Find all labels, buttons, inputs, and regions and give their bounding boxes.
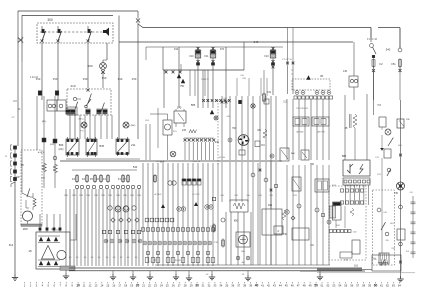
svg-text:F10: F10 [174, 48, 179, 51]
svg-text:F7b: F7b [220, 48, 225, 51]
svg-text:45: 45 [320, 74, 324, 78]
svg-text:C/H: C/H [234, 195, 238, 197]
svg-text:59: 59 [368, 284, 371, 288]
svg-text:57: 57 [356, 284, 359, 288]
svg-text:25: 25 [166, 284, 169, 288]
svg-text:28: 28 [184, 284, 187, 288]
svg-text:17: 17 [118, 284, 121, 288]
svg-text:211: 211 [131, 143, 136, 147]
svg-text:210: 210 [70, 84, 75, 88]
svg-text:51: 51 [321, 284, 324, 288]
svg-text:P10: P10 [53, 77, 58, 81]
svg-text:A10 A10 P10: A10 A10 P10 [346, 184, 359, 187]
svg-text:33: 33 [213, 284, 216, 288]
svg-text:180: 180 [22, 227, 27, 231]
svg-text:A C A D: A C A D [155, 193, 162, 196]
svg-text:P/B: P/B [137, 195, 141, 197]
svg-text:54: 54 [338, 284, 341, 288]
svg-text:29: 29 [190, 284, 193, 288]
svg-text:P10: P10 [102, 76, 107, 80]
svg-text:24: 24 [160, 284, 163, 288]
svg-text:15: 15 [28, 249, 32, 253]
svg-text:(MC): (MC) [79, 119, 84, 121]
svg-text:60: 60 [374, 284, 378, 288]
svg-text:N S: N S [173, 131, 177, 133]
svg-text:F51: F51 [391, 63, 396, 66]
svg-text:52: 52 [326, 284, 329, 288]
svg-text:CP: CP [11, 117, 15, 119]
svg-text:(MB): (MB) [50, 144, 55, 146]
svg-text:(CP): (CP) [41, 178, 45, 180]
svg-text:12: 12 [88, 284, 91, 288]
svg-text:20: 20 [136, 284, 140, 288]
svg-text:540: 540 [254, 40, 259, 44]
svg-text:35: 35 [225, 284, 228, 288]
svg-text:10: 10 [76, 284, 80, 288]
svg-text:32: 32 [207, 284, 210, 288]
svg-text:C/H: C/H [240, 75, 244, 77]
svg-text:47: 47 [297, 284, 300, 288]
svg-text:740: 740 [283, 233, 288, 236]
svg-text:41 C/H: 41 C/H [219, 157, 226, 159]
svg-text:43: 43 [273, 284, 276, 288]
svg-text:F11: F11 [205, 55, 210, 58]
svg-text:145: 145 [343, 70, 348, 73]
svg-text:14: 14 [100, 284, 103, 288]
svg-text:44: 44 [279, 284, 282, 288]
svg-text:A/D P/B: A/D P/B [317, 131, 325, 134]
svg-text:585: 585 [191, 103, 196, 107]
svg-text:16: 16 [112, 284, 115, 288]
svg-text:P10: P10 [83, 77, 88, 81]
svg-text:F 14 F 16: F 14 F 16 [367, 39, 378, 41]
svg-text:B35: B35 [100, 144, 105, 148]
svg-text:A C P D: A C P D [192, 193, 200, 196]
svg-text:41: 41 [261, 284, 264, 288]
svg-text:P/B: P/B [86, 195, 90, 197]
svg-text:40: 40 [255, 284, 259, 288]
svg-text:62: 62 [386, 284, 389, 288]
svg-text:63: 63 [392, 284, 395, 288]
svg-text:750: 750 [180, 85, 185, 88]
svg-text:P 14 P 16: P 14 P 16 [282, 59, 292, 61]
svg-text:C/H: C/H [258, 195, 262, 197]
svg-text:48: 48 [303, 284, 306, 288]
svg-text:P/B: P/B [130, 195, 134, 197]
svg-text:61: 61 [380, 284, 383, 288]
svg-text:19: 19 [130, 284, 133, 288]
svg-text:55: 55 [344, 284, 347, 288]
svg-text:C/H: C/H [223, 98, 227, 100]
svg-text:34: 34 [219, 284, 222, 288]
svg-text:196: 196 [268, 204, 273, 207]
svg-text:P10: P10 [118, 77, 123, 81]
svg-text:58: 58 [362, 284, 365, 288]
svg-text:F10: F10 [189, 55, 194, 58]
svg-text:P/B: P/B [72, 195, 76, 197]
svg-text:P10 P10: P10 P10 [192, 161, 201, 163]
svg-text:21: 21 [142, 284, 145, 288]
svg-text:18: 18 [124, 284, 127, 288]
svg-text:P/B: P/B [123, 195, 127, 197]
svg-text:39: 39 [249, 284, 252, 288]
svg-text:C/H: C/H [226, 116, 230, 118]
svg-text:540: 540 [133, 165, 138, 169]
svg-text:500: 500 [87, 64, 92, 68]
svg-text:P/B: P/B [94, 195, 98, 197]
svg-text:170: 170 [177, 106, 182, 110]
svg-text:42: 42 [267, 284, 270, 288]
svg-text:53: 53 [332, 284, 335, 288]
svg-text:700: 700 [232, 127, 237, 130]
svg-text:(AK): (AK) [59, 148, 64, 151]
svg-text:11: 11 [83, 284, 86, 288]
svg-text:C/H: C/H [246, 195, 250, 197]
svg-text:(ME): (ME) [131, 125, 136, 127]
svg-text:49: 49 [309, 284, 312, 288]
svg-text:300: 300 [47, 18, 53, 22]
svg-text:4 2A 1D: 4 2A 1D [30, 76, 39, 79]
svg-text:540: 540 [386, 48, 391, 52]
svg-text:K: K [278, 229, 280, 233]
svg-text:50: 50 [314, 284, 318, 288]
svg-text:27: 27 [178, 284, 181, 288]
svg-text:P/B P/B P/B: P/B P/B P/B [296, 108, 308, 110]
svg-text:161: 161 [354, 265, 359, 268]
svg-text:A/D A/D: A/D A/D [296, 131, 304, 134]
svg-text:22: 22 [148, 284, 151, 288]
svg-text:580: 580 [342, 154, 347, 158]
svg-text:37: 37 [237, 284, 240, 288]
svg-text:F10: F10 [264, 55, 269, 58]
svg-text:P/B: P/B [108, 195, 112, 197]
svg-text:730: 730 [394, 192, 399, 195]
svg-text:45: 45 [285, 284, 288, 288]
svg-text:P B P B: P B P B [201, 79, 209, 81]
svg-text:46: 46 [291, 284, 294, 288]
svg-text:15: 15 [106, 284, 109, 288]
svg-text:(AK): (AK) [42, 120, 47, 123]
svg-text:23: 23 [154, 284, 157, 288]
svg-text:13: 13 [94, 284, 97, 288]
svg-text:36: 36 [231, 284, 234, 288]
svg-text:26: 26 [172, 284, 175, 288]
svg-text:P/B: P/B [79, 195, 83, 197]
svg-text:64: 64 [398, 284, 401, 288]
svg-text:31: 31 [202, 284, 205, 288]
svg-text:P/B: P/B [64, 195, 68, 197]
svg-text:215: 215 [182, 129, 187, 132]
svg-text:P/B: P/B [116, 195, 120, 197]
svg-text:30: 30 [195, 284, 199, 288]
svg-text:240: 240 [215, 141, 220, 144]
svg-text:614: 614 [9, 243, 14, 247]
svg-text:56: 56 [350, 284, 353, 288]
svg-text:B36: B36 [59, 143, 64, 147]
svg-text:38: 38 [243, 284, 246, 288]
svg-text:P/B: P/B [101, 195, 105, 197]
svg-text:P10 2A A: P10 2A A [156, 160, 165, 163]
svg-text:C/H: C/H [220, 195, 224, 197]
svg-text:CP: CP [16, 175, 20, 179]
svg-text:P10: P10 [132, 77, 137, 81]
